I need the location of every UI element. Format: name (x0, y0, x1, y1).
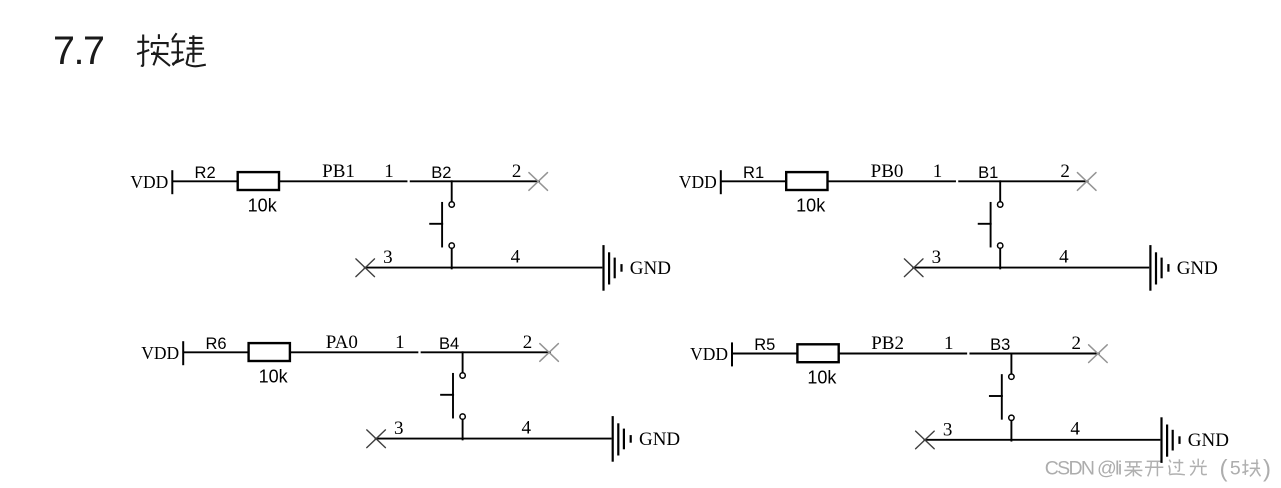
heading character 按 (137, 34, 170, 66)
svg-text:3: 3 (943, 419, 953, 440)
svg-text:3: 3 (383, 247, 393, 268)
push button B4 (439, 335, 465, 439)
svg-text:10k: 10k (796, 195, 826, 215)
bottom-left button circuit B4 (141, 332, 680, 461)
svg-text:2: 2 (1072, 333, 1082, 354)
resistor R5 10k (754, 336, 838, 387)
wire net PB1 from resistor to button pin 1 (280, 180, 406, 182)
power symbol VDD (top-left circuit) (130, 171, 172, 193)
power symbol VDD (bottom-right circuit) (690, 343, 732, 365)
no-connect X flag on pin 3 (904, 259, 923, 277)
svg-text:4: 4 (522, 418, 532, 439)
svg-text:R2: R2 (195, 164, 216, 182)
svg-text:1: 1 (395, 332, 405, 353)
ground symbol GND (1162, 418, 1180, 461)
svg-text:3: 3 (394, 418, 404, 439)
svg-text:PB1: PB1 (322, 161, 355, 182)
no-connect X flag on pin 2 (529, 173, 548, 191)
svg-text:4: 4 (511, 247, 521, 268)
ground symbol GND (1150, 246, 1168, 289)
svg-text:CSDN @li: CSDN @li (1045, 458, 1123, 480)
no-connect X flag on pin 2 (1089, 345, 1108, 363)
wire from pin 1 junction to no-connect pin 2 (422, 351, 550, 353)
svg-text:VDD: VDD (130, 172, 168, 192)
watermark character 光 (1197, 459, 1199, 466)
wire from VDD to resistor pin 1 (733, 353, 797, 355)
no-connect X flag on pin 3 (916, 431, 935, 449)
svg-text:1: 1 (933, 161, 943, 182)
bottom-right button circuit B3 (690, 333, 1229, 462)
svg-text:5: 5 (1230, 458, 1241, 480)
svg-text:R6: R6 (205, 335, 226, 353)
power symbol VDD (bottom-left circuit) (141, 342, 183, 364)
resistor R2 10k (195, 164, 279, 215)
power symbol VDD (top-right circuit) (679, 171, 721, 193)
svg-text:4: 4 (1070, 419, 1080, 440)
svg-text:B3: B3 (990, 336, 1010, 354)
no-connect X flag on pin 3 (356, 259, 375, 277)
no-connect X flag on pin 3 (367, 430, 386, 448)
svg-text:(: ( (1220, 456, 1228, 483)
push button B1 (978, 164, 1003, 268)
svg-text:VDD: VDD (141, 343, 179, 363)
svg-text:PB2: PB2 (871, 333, 904, 354)
svg-text:B4: B4 (439, 335, 459, 353)
svg-text:2: 2 (512, 161, 522, 182)
svg-text:GND: GND (1188, 430, 1229, 451)
wire net PB0 from resistor to button pin 1 (829, 180, 955, 182)
watermark character 开 (1147, 460, 1162, 462)
svg-text:10k: 10k (248, 195, 278, 215)
ground symbol GND (604, 246, 622, 289)
wire from VDD to resistor pin 1 (722, 180, 786, 182)
no-connect X flag on pin 2 (1077, 173, 1096, 191)
wire from no-connect pin 3 through button pin to GND (924, 439, 1159, 441)
svg-text:1: 1 (944, 333, 954, 354)
svg-text:2: 2 (1060, 161, 1070, 182)
resistor R1 10k (743, 164, 827, 215)
ground symbol GND (613, 417, 631, 460)
svg-text:R5: R5 (754, 336, 775, 354)
svg-text:R1: R1 (743, 164, 764, 182)
svg-text:1: 1 (384, 161, 394, 182)
wire from pin 1 junction to no-connect pin 2 (411, 180, 539, 182)
wire from no-connect pin 3 through button pin to GND (376, 438, 611, 440)
push button B3 (990, 336, 1014, 440)
top-right button circuit B1 (679, 161, 1218, 290)
wire from VDD to resistor pin 1 (173, 180, 237, 182)
svg-text:VDD: VDD (690, 344, 728, 364)
wire net PB2 from resistor to button pin 1 (840, 353, 966, 355)
svg-text:7.7: 7.7 (53, 29, 105, 73)
svg-text:PB0: PB0 (871, 161, 904, 182)
svg-text:3: 3 (932, 247, 942, 268)
svg-text:): ) (1263, 456, 1271, 483)
top-left button circuit B2 (130, 161, 671, 290)
svg-text:GND: GND (1177, 258, 1218, 279)
wire net PA0 from resistor to button pin 1 (291, 351, 417, 353)
wire from pin 1 junction to no-connect pin 2 (970, 353, 1098, 355)
svg-text:B1: B1 (978, 164, 998, 182)
wire from VDD to resistor pin 1 (184, 351, 248, 353)
watermark character 某 (1125, 461, 1142, 463)
svg-text:4: 4 (1059, 247, 1069, 268)
push button B2 (430, 164, 454, 268)
wire from pin 1 junction to no-connect pin 2 (959, 180, 1087, 182)
svg-text:GND: GND (630, 258, 671, 279)
svg-text:GND: GND (639, 429, 680, 450)
svg-text:2: 2 (523, 332, 533, 353)
svg-text:VDD: VDD (679, 172, 717, 192)
svg-text:10k: 10k (807, 368, 837, 388)
wire from no-connect pin 3 through button pin to GND (365, 267, 602, 269)
wire from no-connect pin 3 through button pin to GND (913, 267, 1148, 269)
svg-text:B2: B2 (431, 164, 451, 182)
svg-text:PA0: PA0 (326, 332, 358, 353)
svg-text:10k: 10k (259, 366, 289, 386)
resistor R6 10k (205, 335, 289, 386)
watermark character 块 (1244, 460, 1246, 475)
watermark character 过 (1173, 462, 1183, 464)
heading character 键 (171, 33, 206, 66)
no-connect X flag on pin 2 (540, 344, 559, 362)
